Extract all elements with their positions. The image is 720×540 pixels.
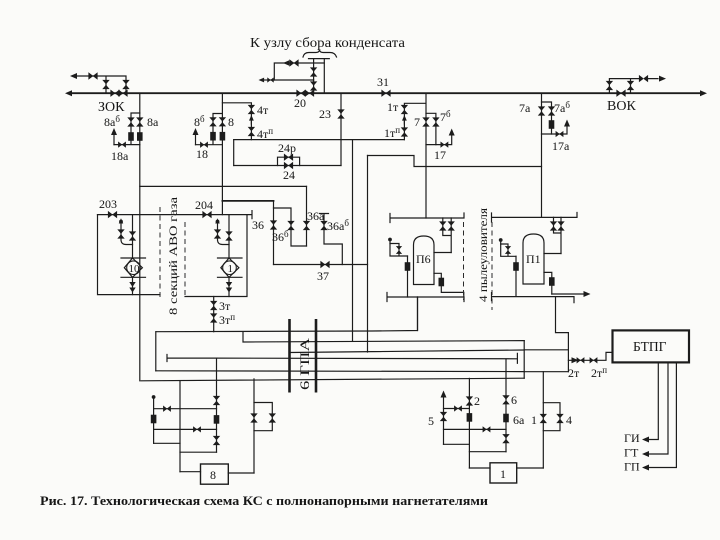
valve 36ab: [320, 221, 327, 230]
wire bottom of column 5: [444, 443, 470, 445]
wire branch to 4t column: [222, 103, 251, 140]
wire 7ab bypass: [542, 102, 552, 134]
valve 8ab lower (dark): [128, 132, 134, 141]
valve on VOK bypass left riser: [606, 81, 613, 90]
node vent arrow up: [193, 128, 199, 135]
wire branch to 1t column: [404, 103, 425, 139]
valve on ZOK bypass: [88, 72, 97, 79]
wire riser 7 from main line down to dust collector manifold: [425, 93, 427, 218]
wire P6 manifold riser to GPA suction: [417, 297, 419, 331]
svg-text:3т: 3т: [219, 299, 231, 313]
valve on column A (dark): [151, 415, 157, 424]
wire riser 8a from main line: [139, 93, 141, 144]
vessel P6: [414, 236, 435, 285]
svg-text:П6: П6: [416, 252, 431, 266]
svg-text:ГИ: ГИ: [624, 431, 640, 445]
wire riser 8 from main line: [221, 93, 223, 214]
dashed separator right of P6: [463, 222, 465, 300]
svg-text:1т: 1т: [387, 100, 399, 114]
valve 18a: [118, 141, 126, 147]
wire P6 left column: [407, 256, 409, 297]
valve 36: [270, 220, 277, 229]
wire ZOK bypass line: [75, 76, 126, 93]
AVO2 fan unit (diamond with circle): [218, 258, 243, 277]
valve 7ab: [548, 106, 555, 115]
valve on C: [250, 413, 257, 422]
valve below 6a: [502, 434, 509, 443]
wire left riser to 24 line: [233, 140, 235, 166]
valve on AVO2 main column: [225, 231, 232, 240]
wire condensate bypass top: [274, 63, 324, 80]
wire riser 7a from main line down to dust collector manifold 2: [541, 93, 543, 217]
box BTPG: [613, 330, 690, 362]
check valve below AVO1: [132, 277, 134, 294]
valve 5: [440, 412, 447, 421]
valve 1t: [401, 105, 408, 114]
valve 8 lower (dark): [220, 132, 226, 141]
wire into vessel: [544, 253, 561, 255]
wire BTPG outlet 3: [648, 362, 676, 467]
node vent arrow up: [111, 128, 117, 135]
wire link to column B bottom: [180, 451, 217, 453]
svg-text:2: 2: [474, 394, 480, 408]
valve 6: [502, 395, 509, 404]
wire vent 18: [195, 134, 197, 145]
valve on cross line 2: [193, 426, 201, 432]
valve 18: [200, 142, 208, 148]
wire vent 17: [426, 134, 452, 145]
svg-text:4 пылеуловителя: 4 пылеуловителя: [476, 207, 490, 302]
valve 8a upper: [136, 117, 143, 126]
wire cross line upper: [444, 408, 470, 410]
valve on VOK bypass (dark): [639, 75, 648, 82]
wire blowdown header: [234, 139, 405, 141]
wire long vertical from blowdown header: [352, 140, 354, 342]
svg-text:37: 37: [317, 269, 329, 283]
wire cross line lower: [444, 428, 507, 430]
valve 37: [320, 261, 329, 268]
wire 3t column: [213, 297, 215, 332]
svg-text:БТПГ: БТПГ: [633, 339, 667, 354]
valve on C bypass: [269, 413, 276, 422]
wire bypass 4 loop: [543, 403, 560, 431]
valve 36a: [303, 221, 310, 230]
wire column 2: [468, 378, 470, 468]
svg-text:18: 18: [196, 147, 208, 161]
GPA bar right: [315, 319, 318, 393]
valve 2: [466, 396, 473, 405]
svg-text:20: 20: [294, 96, 306, 110]
dashed separator left of box2: [184, 222, 186, 297]
wire outlet manifold 2: [492, 293, 575, 303]
wire into box 8: [180, 471, 201, 473]
node small arrow between: [250, 118, 252, 124]
valve on cross line 1: [163, 406, 171, 412]
valve 4t: [248, 105, 255, 114]
AVO1 fan unit (diamond with circle 10): [121, 258, 146, 277]
valve ZOK main (double): [110, 90, 119, 97]
svg-text:ВОК: ВОК: [607, 99, 636, 114]
wire column C: [253, 379, 255, 473]
wire 2t line: [568, 352, 612, 360]
twin inlet valves: [554, 217, 562, 253]
wire 36ab column with top cap: [320, 214, 343, 265]
valve 2t: [577, 357, 585, 363]
valve on column B upper: [213, 396, 220, 405]
box 8: [201, 464, 229, 484]
wire left riser F-D: [155, 332, 157, 371]
svg-text:24: 24: [283, 168, 295, 182]
node arrow top column 5: [441, 391, 447, 398]
wire AVO pass-through vertical (8a column continues): [139, 145, 141, 381]
valve 8ab upper: [127, 117, 134, 126]
node bypass left arrow: [70, 73, 77, 79]
svg-text:6: 6: [511, 393, 517, 407]
valve on bypass right riser: [122, 80, 129, 89]
valve 7b: [432, 117, 439, 126]
valve on cross line upper: [454, 405, 462, 411]
wire manifold line C with T ends: [167, 353, 517, 363]
wire outlet arrow line: [552, 293, 584, 295]
valve 8a lower (dark): [137, 132, 143, 141]
svg-text:8а: 8а: [147, 115, 159, 129]
wire AVO header 2: [161, 214, 247, 216]
wire AVO1 main column: [132, 215, 134, 258]
wire vertical from line to manifold B: [367, 156, 369, 353]
node T end of header2: [247, 211, 252, 219]
valve on P6 left column (dark): [405, 262, 411, 271]
wire AVO header 1: [98, 214, 161, 216]
wire manifold line A: [243, 332, 524, 342]
wire valve 23 riser: [340, 93, 342, 165]
svg-text:36а: 36а: [307, 209, 325, 223]
wire cross line 2: [154, 428, 217, 430]
valve 24r: [284, 154, 293, 161]
valve on vent loop: [505, 246, 511, 254]
svg-text:2т: 2т: [568, 366, 580, 380]
wire 8b bypass: [196, 114, 223, 145]
valve on left condensate column upper: [310, 67, 317, 76]
svg-text:ГТ: ГТ: [624, 446, 639, 460]
valve 36b: [287, 221, 294, 230]
wire into box 1: [469, 467, 490, 469]
svg-text:К узлу сбора конденсата: К узлу сбора конденсата: [250, 35, 405, 50]
dashed separator left of P1: [491, 222, 493, 310]
valve on left condensate column lower: [310, 81, 317, 90]
valve 4: [556, 414, 563, 423]
twin inlet valves: [443, 218, 451, 253]
valve 4tp: [248, 127, 255, 136]
wire AVO1 vent column: [121, 222, 133, 245]
svg-text:6а: 6а: [513, 413, 525, 427]
svg-text:1: 1: [228, 263, 234, 275]
box 1: [490, 463, 517, 483]
svg-text:24р: 24р: [278, 141, 296, 155]
valve 20 (double) on main line: [296, 90, 305, 97]
wire column 5: [443, 396, 445, 444]
wire P6 left vent loop: [390, 244, 408, 257]
wire thick feed line: [222, 200, 273, 202]
wire inlet manifold 1: [390, 213, 464, 223]
wire vent 17a: [552, 125, 568, 134]
node dot top: [389, 240, 391, 244]
valve 1: [540, 414, 547, 423]
node dot top of column A: [152, 395, 156, 399]
wire column 6: [505, 359, 507, 452]
valve on cross line lower: [483, 426, 491, 432]
wire inlet manifold 2: [492, 213, 578, 223]
svg-text:36: 36: [252, 218, 264, 232]
svg-text:31: 31: [377, 75, 389, 89]
node right arrow end of main line: [700, 90, 707, 96]
node small arrow between: [403, 118, 405, 124]
dashed separator right of box1: [159, 207, 161, 300]
valve 7: [422, 117, 429, 126]
wire condensate column right: [320, 59, 330, 94]
wire 8ab bypass: [114, 113, 140, 145]
wire manifold line D: [156, 370, 524, 373]
node flow arrow on 2t line: [572, 357, 579, 363]
wire AVO2 vent column: [218, 222, 230, 245]
wire condensate column left: [309, 59, 319, 94]
svg-text:1: 1: [500, 467, 506, 481]
AVO box 2 right and bottom: [185, 215, 247, 297]
svg-text:7: 7: [414, 115, 420, 129]
valve on AVO1 vent: [117, 229, 124, 238]
valve on AVO1 main column: [129, 231, 136, 240]
node bypass right arrow: [659, 76, 666, 82]
wire 37 line: [274, 264, 368, 266]
wire P1 path down to fuel line: [556, 297, 569, 372]
node arrow GT: [642, 451, 649, 457]
svg-text:4т: 4т: [257, 103, 269, 117]
wire main suction/discharge header: [70, 92, 702, 94]
wire 36 column: [273, 201, 275, 265]
valve below 2 (dark): [467, 413, 473, 422]
valve on VOK bypass right riser: [627, 81, 634, 90]
wire manifold line F (suction from P6): [156, 297, 418, 332]
svg-text:5: 5: [428, 414, 434, 428]
wire line y186 from 8a column to 36a column: [140, 185, 307, 187]
wire P1 left vent loop: [501, 244, 516, 256]
svg-text:ГП: ГП: [624, 460, 640, 474]
wire BTPG outlet 1: [648, 362, 658, 439]
node dot top: [500, 241, 502, 245]
wire BTPG outlet 2: [648, 362, 668, 454]
wire into vessel: [434, 252, 451, 254]
wire line to dust collectors upper: [368, 156, 542, 167]
svg-text:8: 8: [228, 115, 234, 129]
valve 1tp: [401, 127, 408, 136]
node arrow GP: [642, 465, 649, 471]
valve 6a (dark): [503, 414, 509, 423]
valve 8b upper: [209, 117, 216, 126]
wire column B from manifold C: [216, 358, 218, 452]
wire cross line 1: [154, 408, 217, 410]
valve on bypass left riser: [102, 80, 109, 89]
valve on vent stub: [267, 77, 273, 82]
valve 7a: [538, 106, 545, 115]
wire from box 8 to column C: [228, 472, 254, 474]
node arrow 17a: [564, 120, 570, 127]
svg-text:П1: П1: [526, 252, 541, 266]
vessel P1: [523, 234, 544, 284]
wire 24 line: [234, 165, 341, 167]
wire AVO2 main column: [228, 215, 230, 258]
valve 3tp: [210, 313, 217, 322]
valve on P1 left column (dark): [513, 262, 519, 271]
valve 2tp: [590, 357, 598, 363]
wire 7b bypass: [426, 113, 436, 144]
svg-text:1: 1: [531, 413, 537, 427]
valve 17a: [556, 131, 564, 137]
valve on P6 outlet (dark): [439, 278, 445, 287]
wire column 1: [542, 372, 544, 468]
svg-text:ЗОК: ЗОК: [98, 100, 125, 115]
valve 24: [284, 162, 293, 169]
valve 8 upper: [219, 117, 226, 126]
valve 204: [202, 211, 211, 218]
wire manifold line E: [141, 378, 524, 381]
node dot-arrow top: [119, 220, 123, 224]
brace over condensate pipes: [303, 50, 337, 57]
valve 17: [440, 141, 448, 147]
check valve below AVO2: [228, 277, 230, 296]
wire outlet manifold 1: [387, 293, 464, 302]
wire bottom link A: [154, 442, 180, 444]
wire left drop column: [179, 381, 181, 472]
valve 23: [337, 109, 344, 118]
valve 8b lower (dark): [210, 132, 216, 141]
wire 24r bypass rect: [278, 157, 300, 165]
valve on P1 outlet (dark): [549, 277, 555, 286]
wire condensate vent stub: [263, 79, 274, 81]
svg-text:17а: 17а: [552, 139, 570, 153]
svg-text:204: 204: [195, 198, 213, 212]
svg-text:17: 17: [434, 148, 446, 162]
node left arrow end of main line: [65, 90, 72, 96]
valve 31 on main line: [381, 90, 390, 97]
wire P1 outlet: [544, 272, 552, 294]
wire link line: [469, 451, 506, 453]
svg-text:23: 23: [319, 107, 331, 121]
wire right end riser A-E: [523, 341, 525, 379]
valve 7ab lower (dark): [549, 120, 555, 129]
node arrow GI: [642, 437, 649, 443]
node vent arrow left: [259, 78, 265, 83]
wire vent 18a: [113, 134, 115, 145]
valve on column B lower: [213, 436, 220, 445]
node dot-arrow top: [216, 220, 220, 224]
node arrow 17: [449, 129, 455, 136]
svg-text:10: 10: [129, 263, 141, 275]
valve on bypass top with left arrow: [289, 59, 298, 66]
svg-text:6 ГПА: 6 ГПА: [297, 337, 312, 390]
wire 36a column: [306, 186, 308, 246]
wire C bypass loop: [254, 403, 272, 431]
wire 36b bypass: [274, 208, 307, 246]
wire column A: [153, 398, 155, 444]
wire connector rect: [524, 350, 568, 372]
wire VOK bypass line: [609, 79, 658, 94]
svg-text:Рис. 17. Технологическая схема: Рис. 17. Технологическая схема КС с полн…: [40, 494, 488, 508]
valve on vent loop: [396, 246, 402, 254]
svg-text:7а: 7а: [519, 101, 531, 115]
valve VOK main: [616, 90, 625, 97]
wire manifold line B: [290, 350, 525, 353]
svg-text:8: 8: [210, 468, 216, 482]
wire P1 left column: [515, 256, 517, 295]
wire P6 outlet: [434, 273, 464, 297]
valve on AVO2 vent: [214, 229, 221, 238]
AVO box 1: [98, 215, 161, 295]
GPA bar left: [288, 319, 291, 393]
valve 203: [108, 211, 117, 218]
svg-text:18а: 18а: [111, 149, 129, 163]
valve 3t: [210, 301, 217, 310]
wire box1 to column 1: [517, 467, 544, 469]
svg-text:203: 203: [99, 197, 117, 211]
svg-text:4: 4: [566, 413, 572, 427]
valve on column B middle (dark): [214, 415, 220, 424]
